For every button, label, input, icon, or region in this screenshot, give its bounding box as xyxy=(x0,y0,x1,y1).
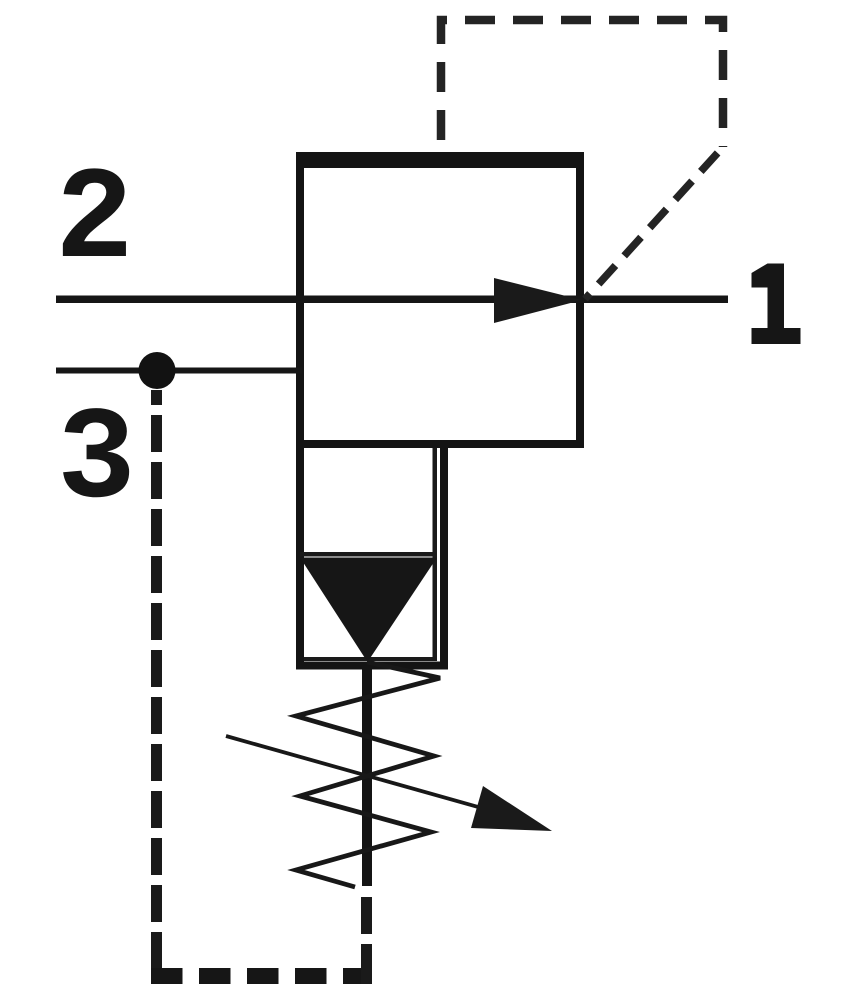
svg-text:3: 3 xyxy=(57,388,136,536)
svg-text:2: 2 xyxy=(55,148,134,296)
